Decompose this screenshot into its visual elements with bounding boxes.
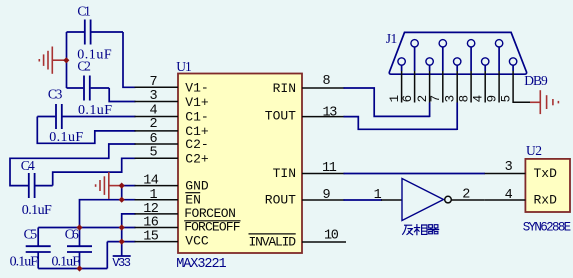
svg-text:FORCEON: FORCEON <box>184 206 236 221</box>
wire pin1 EN to C6 top rail <box>80 200 136 228</box>
svg-text:RIN: RIN <box>273 81 296 96</box>
svg-text:6: 6 <box>401 95 415 103</box>
svg-text:C2: C2 <box>77 58 91 73</box>
capacitor C4 <box>29 173 53 198</box>
wire GND to EN <box>121 186 123 200</box>
svg-text:2: 2 <box>416 95 430 103</box>
DB9 pin 6 circle and stub <box>411 40 418 47</box>
svg-text:4: 4 <box>505 188 513 203</box>
svg-text:2: 2 <box>462 188 470 203</box>
svg-text:V1-: V1- <box>185 80 208 95</box>
ground (top-left earth) <box>39 47 64 74</box>
svg-text:15: 15 <box>143 230 159 245</box>
wire pin6 (C2-) to C4 left <box>10 144 136 186</box>
svg-text:0.1uF: 0.1uF <box>22 203 52 218</box>
pin 12 stub <box>135 213 179 215</box>
svg-text:2: 2 <box>149 117 157 132</box>
DB9 pin 1 circle and stub <box>398 58 405 65</box>
svg-text:FORCEOFF: FORCEOFF <box>184 220 240 235</box>
svg-text:SYN6288E: SYN6288E <box>523 221 572 235</box>
node junction dot (ground/C1/C2) <box>63 57 69 63</box>
wire VCC row <box>107 241 135 243</box>
ground stub to GND pin <box>109 185 122 187</box>
svg-text:0.1uF: 0.1uF <box>10 255 39 270</box>
svg-text:GND: GND <box>185 179 209 194</box>
junction dot rail/pin12 <box>119 224 125 230</box>
svg-text:1: 1 <box>149 188 157 203</box>
inverter output bubble <box>445 196 452 203</box>
svg-text:V1+: V1+ <box>185 95 209 110</box>
svg-text:ROUT: ROUT <box>265 192 296 207</box>
wire C2 right to pin3 <box>109 88 135 102</box>
svg-text:5: 5 <box>500 95 514 103</box>
capacitor C6 <box>67 228 92 269</box>
svg-text:J1: J1 <box>386 31 398 46</box>
junction dot GND pin14 <box>119 183 125 189</box>
pin 11 stub TIN <box>302 173 345 175</box>
svg-text:9: 9 <box>323 188 331 203</box>
svg-text:13: 13 <box>323 105 338 120</box>
pin 3 stub TxD <box>485 173 526 175</box>
svg-text:RxD: RxD <box>534 193 558 208</box>
svg-text:C5: C5 <box>24 226 38 241</box>
svg-text:5: 5 <box>149 145 157 160</box>
capacitor C2 <box>67 76 110 101</box>
DB9 pin 9 circle and stub <box>495 40 502 47</box>
svg-text:0.1uF: 0.1uF <box>52 255 81 270</box>
svg-text:C4: C4 <box>21 158 35 173</box>
svg-text:7: 7 <box>429 95 443 103</box>
pin 9 stub ROUT <box>302 199 345 201</box>
svg-text:TxD: TxD <box>534 166 558 181</box>
svg-text:1: 1 <box>388 95 402 103</box>
wire TIN to U2 TxD <box>344 173 486 175</box>
pin 14 stub <box>135 185 179 187</box>
ground (middle earth under pin5 rail) <box>96 172 109 199</box>
IC U1 MAX3221 body <box>178 74 302 254</box>
pin 13 stub TOUT <box>302 116 345 118</box>
svg-text:C1: C1 <box>77 3 91 18</box>
module U2 SYN6288E body <box>525 159 570 212</box>
bottom rail (cap bottoms) <box>38 268 107 270</box>
pin 15 stub <box>135 241 179 243</box>
svg-text:8: 8 <box>458 95 472 103</box>
junction dot EN pin1 <box>119 197 125 203</box>
svg-text:9: 9 <box>486 95 500 103</box>
ground (DB9 pin5 earth) <box>530 90 558 114</box>
pin 10 stub INVALID <box>302 241 346 243</box>
pin 3 stub <box>135 101 179 103</box>
DB9 pin 8 circle and stub <box>467 40 474 47</box>
svg-text:8: 8 <box>323 74 331 89</box>
capacitor C1 <box>67 20 124 45</box>
svg-text:MAX3221: MAX3221 <box>176 257 226 272</box>
svg-text:C6: C6 <box>65 226 79 241</box>
svg-text:TOUT: TOUT <box>265 109 296 124</box>
DB9 pin 7 circle and stub <box>439 40 446 47</box>
DB9 pin 2 circle and stub <box>426 58 433 65</box>
wire pin14 GND <box>122 185 136 187</box>
svg-text:4: 4 <box>472 95 486 103</box>
svg-text:DB9: DB9 <box>524 73 548 88</box>
wire C4 right up to gnd rail / pin5 <box>53 158 136 185</box>
pin 16 stub <box>135 227 179 229</box>
svg-text:3: 3 <box>444 95 458 103</box>
wire inverter output to U2 RxD <box>451 199 484 201</box>
DB9 pin 4 circle and stub <box>482 58 489 65</box>
svg-text:1: 1 <box>374 188 382 203</box>
svg-text:C3: C3 <box>48 87 63 102</box>
DB9 pin 5 circle and stub <box>509 58 516 65</box>
wire pin12 FORCEON down to VCC row <box>122 214 136 242</box>
wire C1 right to pin7 <box>123 32 136 87</box>
junction dot VCC pin15 <box>119 239 125 245</box>
svg-text:11: 11 <box>322 161 337 176</box>
pin 1 stub <box>135 199 179 201</box>
wire ROUT to inverter input <box>344 199 383 201</box>
svg-text:10: 10 <box>324 229 339 244</box>
svg-text:VCC: VCC <box>185 233 209 248</box>
svg-text:16: 16 <box>143 216 159 231</box>
svg-text:14: 14 <box>143 174 159 189</box>
capacitor C3 <box>37 104 135 129</box>
DB9 pin 3 circle and stub <box>454 58 461 65</box>
svg-text:C2-: C2- <box>185 137 208 152</box>
svg-text:U2: U2 <box>526 143 542 158</box>
pin 8 stub RIN <box>302 87 345 89</box>
wire TOUT to DB9 pin3 <box>344 117 458 130</box>
rail pin16 FORCEOFF / cap tops <box>38 227 135 229</box>
svg-text:U1: U1 <box>176 59 192 74</box>
pin 5 stub <box>135 157 179 159</box>
pin 4 stub RxD <box>485 199 526 201</box>
pin 7 stub <box>135 86 179 88</box>
capacitor C5 <box>26 228 51 269</box>
svg-text:3: 3 <box>505 160 513 175</box>
svg-text:3: 3 <box>149 89 157 104</box>
svg-text:TIN: TIN <box>273 166 296 181</box>
wire C1 left down to ground node <box>66 32 68 88</box>
svg-text:C1-: C1- <box>185 110 208 125</box>
pin 4 stub <box>135 116 179 118</box>
wire RIN to DB9 pin2 <box>344 88 430 116</box>
inverter input pin <box>381 199 402 201</box>
label 反相器 (inverter) hand-drawn <box>402 224 439 235</box>
pin 2 stub <box>135 130 179 132</box>
wire bottom rail riser <box>106 242 108 269</box>
connector J1 DB9 shell <box>389 32 526 74</box>
junction dot C6 top <box>76 224 82 230</box>
junction dot C6 bottom <box>76 265 82 271</box>
pin 6 stub <box>135 143 179 145</box>
wire C3 left to pin2 (C1+) <box>37 117 135 144</box>
svg-text:C2+: C2+ <box>185 151 209 166</box>
svg-text:4: 4 <box>149 103 157 118</box>
inverter triangle <box>402 179 444 221</box>
svg-text:INVALID: INVALID <box>249 235 297 250</box>
power net V33 tap <box>121 242 123 256</box>
svg-text:V33: V33 <box>112 256 130 270</box>
